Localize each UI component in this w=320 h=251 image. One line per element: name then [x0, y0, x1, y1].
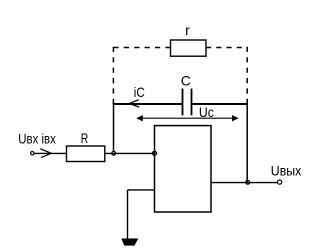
- label r value: [185, 22, 190, 38]
- terminal: output circle: [278, 180, 282, 184]
- terminal: input circle: [31, 152, 34, 155]
- wire: input terminal to resistor R: [34, 152, 66, 154]
- label Uc: [199, 104, 214, 120]
- wire: right rail solid vertical down to output node: [246, 100, 248, 183]
- wire: dashed feedback top horizontal left segment: [113, 47, 170, 49]
- arrow: input signal direction (open head, pointing right): [40, 149, 51, 158]
- resistor r: [171, 40, 207, 56]
- wire: ground drop vertical: [127, 190, 129, 239]
- wire: dashed feedback left vertical: [112, 47, 114, 103]
- node: amplifier inverting input terminal: [153, 151, 157, 155]
- ground: [122, 239, 138, 246]
- svg-text:C: C: [181, 72, 191, 88]
- arrow: iC current direction (open head, pointing left): [129, 100, 139, 107]
- wire: feedback horizontal to capacitor left: [113, 103, 183, 105]
- wire: amplifier output to output terminal: [211, 182, 277, 184]
- wire: dashed feedback top horizontal right segment: [206, 47, 248, 49]
- svg-text:Uc: Uc: [199, 104, 214, 120]
- svg-text:r: r: [185, 22, 190, 38]
- label iC current: [134, 84, 145, 100]
- wire: capacitor right to right rail: [192, 103, 249, 105]
- wire: left rail solid vertical down to input node: [113, 103, 115, 152]
- svg-text:R: R: [81, 130, 89, 146]
- label Uвх iвх input: [18, 131, 56, 146]
- op-amp U1 (amplifier block): [155, 126, 212, 212]
- wire: resistor R to summing node: [105, 152, 155, 154]
- svg-text:Uвх iвх: Uвх iвх: [18, 131, 56, 146]
- node: summing junction A: [112, 151, 116, 155]
- label Uвых output: [271, 163, 302, 179]
- arrow: Uc measurement double-headed: [136, 115, 238, 121]
- wire: dashed feedback right vertical: [246, 47, 248, 100]
- node: output junction with feedback rail: [246, 180, 250, 184]
- wire: amplifier second input to ground horizontal: [128, 189, 155, 191]
- label R: [81, 130, 89, 146]
- svg-text:iC: iC: [134, 84, 145, 100]
- resistor R: [67, 146, 105, 162]
- label C: [181, 72, 191, 88]
- svg-text:Uвых: Uвых: [271, 163, 302, 179]
- capacitor C: [183, 89, 192, 116]
